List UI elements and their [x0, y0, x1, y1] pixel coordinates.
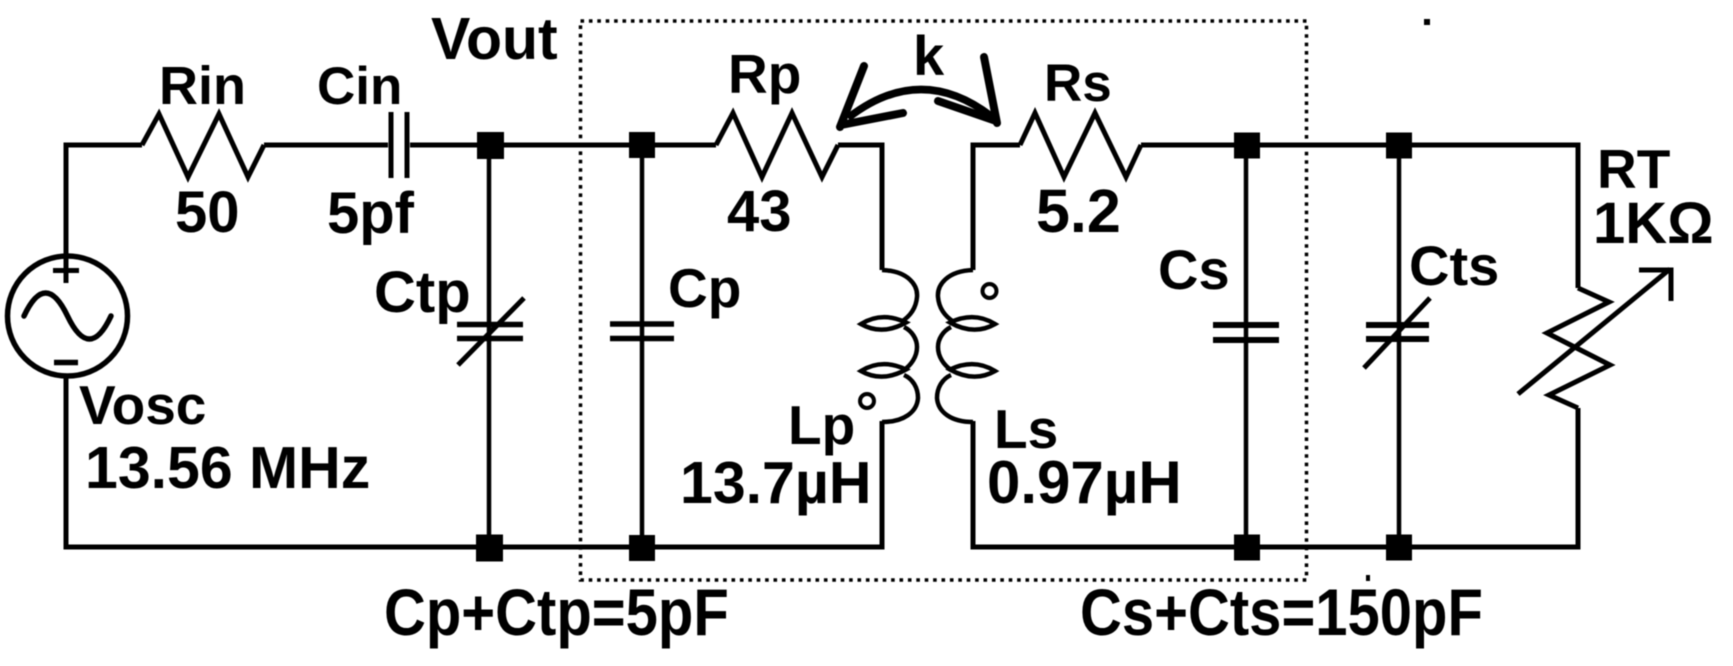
- svg-text:Cs: Cs: [1158, 238, 1230, 301]
- svg-text:5.2: 5.2: [1036, 177, 1121, 245]
- Ctp variable slash: [458, 298, 524, 365]
- node Cs bottom junction: [1234, 535, 1260, 561]
- Cts variable slash: [1364, 298, 1430, 368]
- capacitor Cs plates: [1213, 325, 1279, 340]
- wire: Rp to Lp top: [838, 145, 882, 270]
- capacitor Cp plates: [610, 324, 674, 339]
- RT arrowhead: [1639, 270, 1671, 301]
- svg-text:Rs: Rs: [1044, 54, 1112, 113]
- inductor Ls loop lens 2: [950, 364, 995, 377]
- svg-text:Cs+Cts=150pF: Cs+Cts=150pF: [1080, 577, 1483, 650]
- wire: Rs to Cs node: [1141, 143, 1234, 148]
- wire: Cts node to RT top: [1412, 145, 1578, 288]
- svg-text:Vout: Vout: [431, 6, 558, 72]
- svg-text:50: 50: [175, 180, 240, 245]
- wire: primary bottom and source bottom lead: [66, 375, 885, 547]
- svg-text:Rp: Rp: [728, 43, 801, 105]
- resistor Rin: [142, 114, 264, 177]
- svg-text:Vosc: Vosc: [79, 374, 206, 436]
- svg-text:Lp: Lp: [788, 394, 855, 456]
- inductor Lp loop lens 2: [861, 364, 906, 377]
- wire: secondary bottom: [973, 421, 1581, 547]
- wire: Cts branch vertical: [1397, 145, 1402, 548]
- wire: Cp node to Rp: [655, 143, 716, 148]
- node Cts top junction: [1386, 133, 1412, 159]
- Ls phase dot: [983, 284, 997, 298]
- capacitor Cin: [391, 112, 407, 178]
- wire: Rin to Cin: [264, 143, 388, 148]
- wire: Cin to Vout node: [410, 143, 478, 148]
- capacitor Ctp plates: [457, 325, 523, 339]
- wire: Cp branch vertical: [640, 145, 645, 548]
- inductor Ls loop lens 1: [950, 317, 995, 330]
- svg-text:5pf: 5pf: [327, 181, 415, 246]
- wire: Cs node to Cts node: [1260, 143, 1386, 148]
- Lp phase dot: [860, 394, 874, 408]
- svg-text:Rin: Rin: [159, 56, 246, 116]
- wire: Ctp branch vertical: [487, 145, 492, 548]
- inductor Ls: [937, 270, 973, 422]
- svg-text:Cts: Cts: [1409, 234, 1499, 297]
- svg-text:Cp: Cp: [668, 257, 741, 319]
- stray dot top right: [1424, 19, 1430, 25]
- variable resistor RT zigzag: [1547, 288, 1610, 408]
- k right arrowhead: [938, 57, 997, 123]
- wire: source top lead to Rin: [66, 145, 142, 258]
- svg-text:Ctp: Ctp: [374, 260, 471, 325]
- wire: Vout node to Cp node: [504, 143, 630, 148]
- stray dot bottom: [1366, 575, 1370, 581]
- resistor Rp: [716, 113, 838, 177]
- svg-text:k: k: [913, 24, 945, 87]
- node Cts bottom junction: [1386, 535, 1412, 561]
- source minus sign: [54, 360, 78, 366]
- coupling k arc: [848, 89, 991, 118]
- svg-text:13.56 MHz: 13.56 MHz: [85, 435, 370, 501]
- source sine wave: [24, 293, 111, 339]
- inductor Lp loop lens 1: [861, 317, 906, 330]
- svg-text:0.97µH: 0.97µH: [987, 449, 1182, 516]
- wire: Lp bottom lead: [880, 421, 885, 547]
- node Cs top junction: [1234, 133, 1260, 159]
- RT arrow: [1518, 269, 1670, 394]
- node Cp top junction: [629, 132, 655, 158]
- svg-text:13.7µH: 13.7µH: [680, 450, 871, 516]
- capacitor Cts plates: [1366, 325, 1429, 339]
- svg-text:1KΩ: 1KΩ: [1593, 191, 1714, 256]
- svg-text:Cin: Cin: [317, 57, 402, 116]
- source plus sign: [53, 258, 79, 283]
- svg-text:Cp+Ctp=5pF: Cp+Ctp=5pF: [384, 577, 729, 650]
- node Cp bottom junction: [629, 535, 655, 561]
- inductor Lp: [882, 270, 918, 422]
- node Ctp bottom junction: [476, 535, 503, 562]
- wire: RT bottom lead: [1576, 408, 1581, 547]
- wire: Cs branch vertical: [1244, 145, 1249, 548]
- source Vosc circle: [8, 256, 128, 376]
- node Vout junction: [477, 132, 504, 159]
- k left arrowhead: [840, 66, 903, 127]
- svg-text:43: 43: [727, 179, 792, 244]
- wire: Ls top lead to Rs: [973, 145, 1020, 270]
- resistor Rs: [1020, 113, 1141, 177]
- dotted transformer box: [581, 21, 1307, 580]
